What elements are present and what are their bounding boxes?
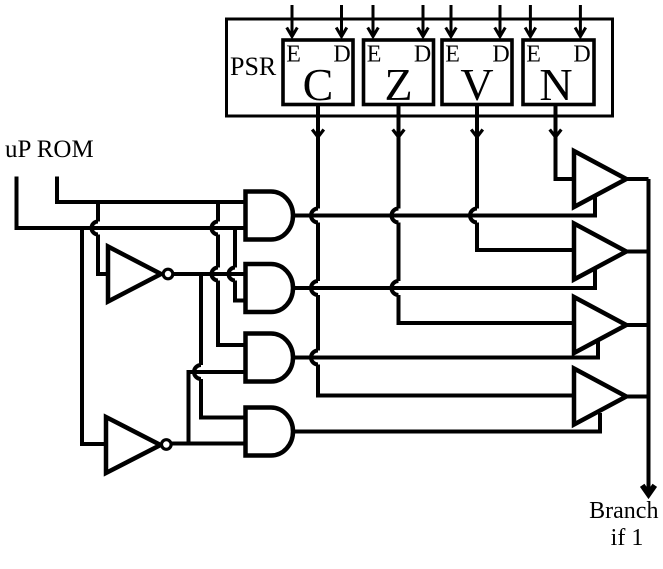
wire Z output drop to buffer3 input [399, 105, 576, 324]
flag box V [442, 40, 512, 110]
AND gate 2 [246, 264, 294, 312]
arrowhead on C drop [312, 130, 324, 138]
wire AND1 output to buffer1 enable [293, 195, 595, 216]
hop: inverted B over AND3 lower input wire [194, 365, 201, 379]
svg-text:E: E [445, 42, 460, 68]
hop: inverter1 branch over wire A [92, 222, 99, 235]
svg-text:uP ROM: uP ROM [5, 136, 94, 163]
register PSR outer box [227, 19, 613, 116]
svg-text:Z: Z [384, 59, 412, 110]
arrowhead on V drop [471, 130, 483, 138]
flag box C [283, 40, 353, 110]
hop: C drop over AND2 output [311, 281, 318, 295]
wire branch of B down to inverter1 input [98, 202, 108, 274]
hop: Z drop over AND1 output [392, 209, 399, 223]
inverter U1 [108, 247, 173, 302]
arrowhead branch output [642, 485, 655, 494]
wire buffer3 output to bus [626, 323, 648, 327]
input arrow E arrow N [525, 5, 536, 37]
svg-text:E: E [367, 42, 382, 68]
wire ROM bit A to AND1 lower input [17, 177, 246, 229]
wire inverter1 output to AND2 upper input [174, 272, 246, 276]
tri-state buffer 1 [574, 151, 626, 207]
wire inverted A riser to AND3 lower input [189, 372, 246, 444]
input arrow D arrow N [575, 5, 586, 37]
hop: C drop over AND3 output [311, 351, 318, 365]
tri-state buffer 4 [574, 369, 626, 425]
label Branch if 1 [589, 498, 658, 551]
svg-text:C: C [303, 59, 334, 110]
wire AND2 output to buffer2 enable [293, 268, 595, 288]
wire AND4 output to buffer4 enable [293, 413, 600, 432]
svg-text:N: N [539, 59, 572, 110]
svg-text:V: V [460, 59, 493, 110]
AND gate 1 [246, 192, 294, 240]
wire buffer4 output to bus [626, 395, 648, 399]
input arrow D arrow V [495, 5, 506, 37]
svg-text:Branch: Branch [589, 498, 658, 524]
svg-text:if 1: if 1 [611, 525, 644, 551]
svg-text:PSR: PSR [230, 52, 277, 81]
svg-text:D: D [573, 42, 590, 68]
svg-text:D: D [492, 42, 509, 68]
svg-text:D: D [414, 42, 431, 68]
hop: wire B over inverter1 output [212, 268, 218, 281]
wire B down to AND3 upper input [218, 202, 245, 345]
input arrow E arrow V [446, 5, 457, 37]
tri-state buffer 3 [574, 297, 626, 353]
svg-text:E: E [526, 42, 541, 68]
input arrow E arrow C [287, 5, 298, 37]
svg-text:D: D [333, 42, 350, 68]
AND gate 3 [246, 334, 294, 382]
hop: wire A over inverter1 output [229, 268, 236, 281]
input arrow D arrow Z [418, 5, 429, 37]
input arrow D arrow C [336, 5, 347, 37]
wire buffer2 output to bus [626, 250, 648, 254]
hop: V drop over AND1 output [470, 209, 477, 223]
wire buffer1 output to bus [626, 177, 648, 181]
wire AND3 output to buffer3 enable [293, 341, 598, 358]
wire A down to AND2 lower input [235, 228, 245, 301]
flag box Z [364, 40, 434, 110]
tri-state buffer 2 [574, 224, 626, 280]
hop: wire B over wire A [212, 222, 218, 235]
wire output bus down to branch arrow [647, 179, 651, 491]
inverter U2 [106, 417, 171, 473]
svg-text:E: E [286, 42, 301, 68]
hop: C drop over AND1 output [311, 209, 318, 223]
wire N output drop to buffer1 input [556, 105, 576, 180]
arrowhead on Z drop [393, 130, 405, 138]
arrowhead on N drop [550, 130, 562, 138]
input arrow E arrow Z [368, 5, 379, 37]
wire inverter2 output to AND4 lower input [172, 442, 245, 446]
wire V output drop to buffer2 input [477, 105, 575, 251]
flag box N [523, 40, 594, 110]
wire inverted B down to AND4 upper input [201, 274, 245, 418]
AND gate 4 [246, 408, 294, 456]
wire branch of A down to inverter2 input [82, 228, 106, 444]
wire ROM bit B to AND1 upper input [57, 177, 245, 203]
wire C output drop to buffer4 input [318, 105, 575, 396]
hop: Z drop over AND2 output [392, 281, 399, 295]
